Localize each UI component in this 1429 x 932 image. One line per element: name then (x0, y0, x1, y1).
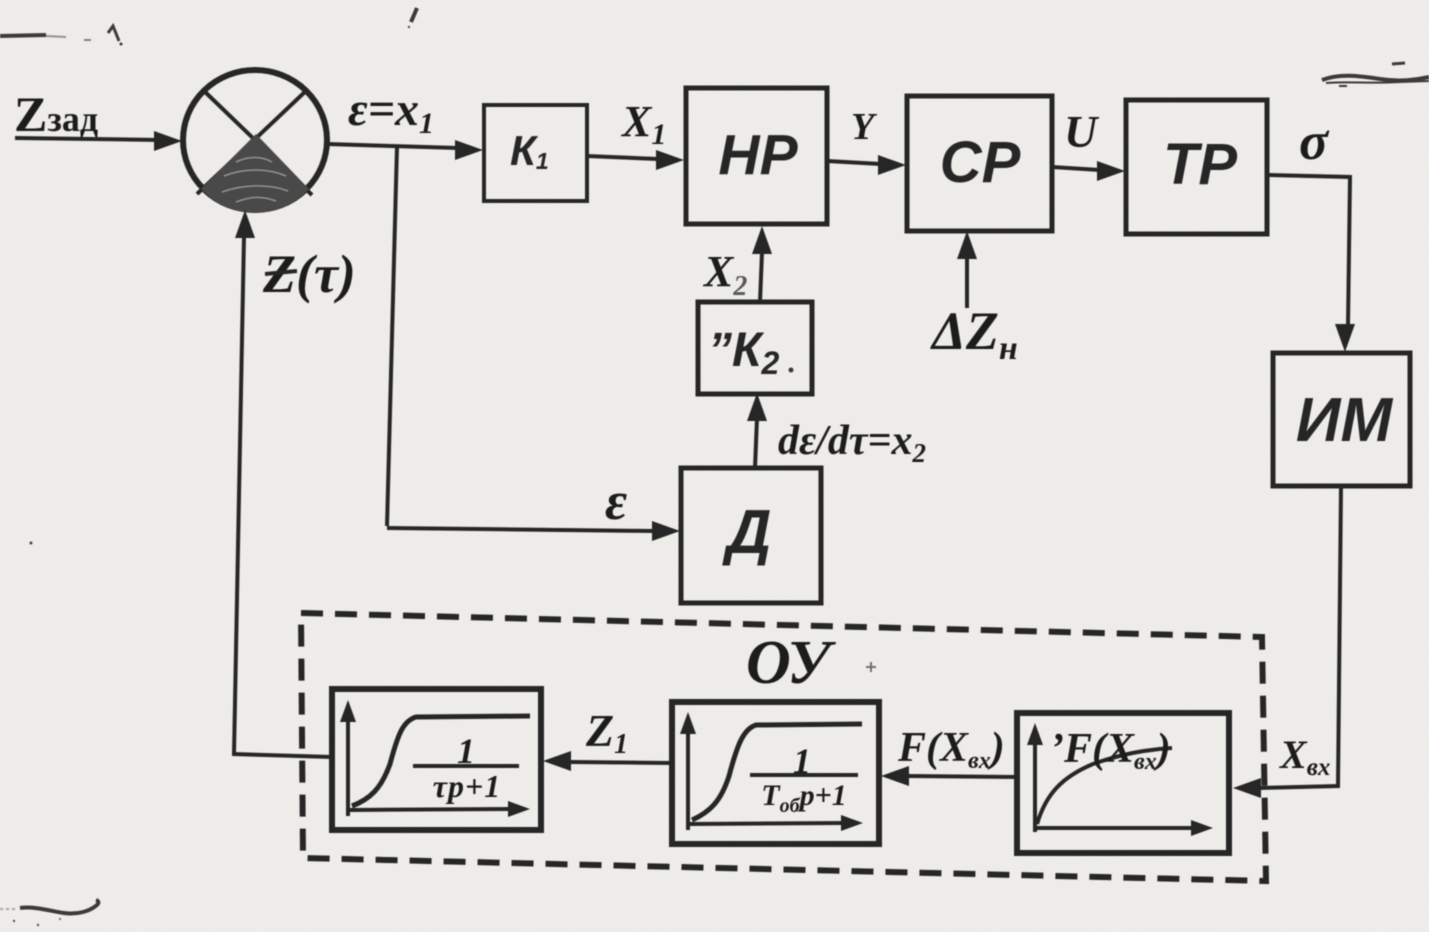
svg-text:σ: σ (1299, 111, 1330, 171)
svg-text:СР: СР (940, 130, 1021, 195)
svg-text:U: U (1064, 106, 1100, 157)
svg-text:ИМ: ИМ (1296, 386, 1394, 455)
svg-text:ОУ: ОУ (746, 629, 836, 697)
svg-text:ТР: ТР (1163, 132, 1237, 197)
svg-text:τp+1: τp+1 (433, 768, 501, 804)
svg-text:НР: НР (718, 123, 798, 187)
svg-text:Д: Д (722, 498, 772, 567)
svg-text:1: 1 (457, 731, 475, 771)
svg-text:1: 1 (793, 741, 811, 781)
svg-text:ε: ε (605, 471, 627, 531)
svg-text:Tобp+1: Tобp+1 (761, 779, 846, 817)
svg-text:dε/dτ=x2: dε/dτ=x2 (778, 418, 926, 468)
svg-text:Y: Y (851, 106, 878, 148)
